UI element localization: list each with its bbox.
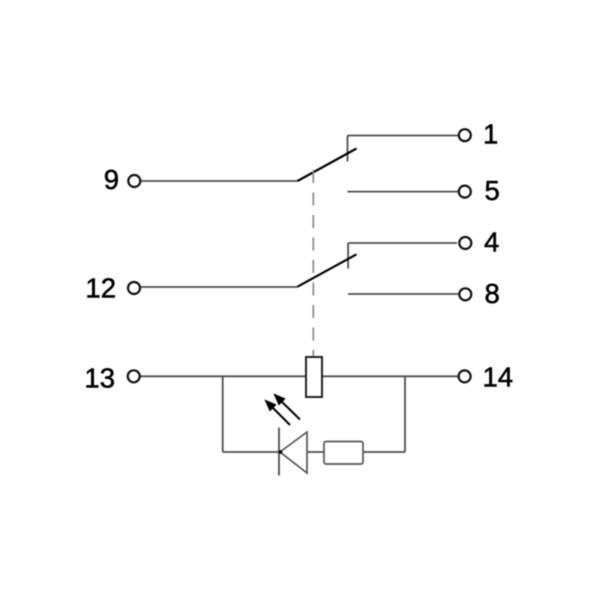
svg-text:1: 1 (483, 119, 498, 150)
svg-text:12: 12 (85, 273, 116, 304)
svg-text:4: 4 (484, 227, 499, 258)
svg-text:14: 14 (483, 362, 514, 393)
svg-text:8: 8 (485, 278, 500, 309)
svg-text:9: 9 (104, 164, 119, 195)
svg-text:5: 5 (485, 175, 500, 206)
svg-text:13: 13 (84, 363, 115, 394)
